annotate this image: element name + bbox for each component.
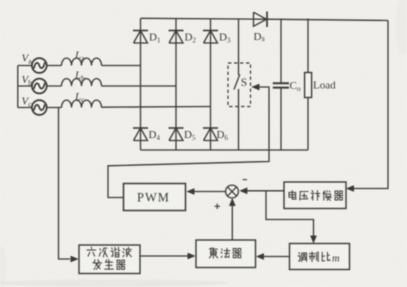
svg-text:m: m [332,254,340,265]
svg-text:S: S [241,77,247,89]
svg-text:PWM: PWM [137,191,170,205]
svg-text:Load: Load [313,80,336,92]
svg-text:Ds: Ds [254,31,265,43]
